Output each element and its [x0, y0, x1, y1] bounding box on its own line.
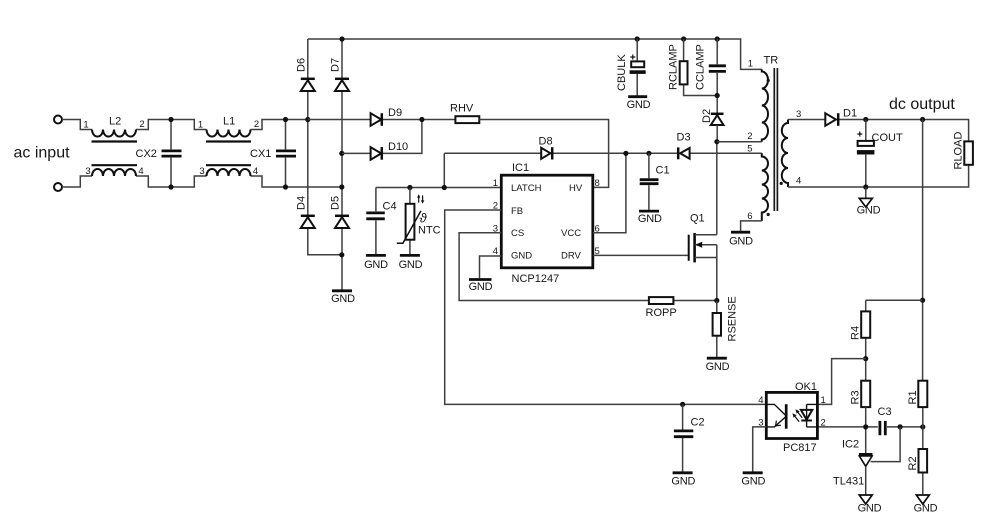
resistor RLOAD [964, 141, 973, 164]
phase dot aux [767, 213, 770, 216]
svg-text:1: 1 [198, 120, 203, 131]
capacitor COUT plus plate [858, 141, 874, 146]
svg-text:2: 2 [821, 417, 826, 428]
svg-text:D10: D10 [388, 141, 408, 153]
capacitor CX2 wires [170, 120, 172, 188]
resistor R4 [861, 300, 870, 381]
svg-text:GND: GND [858, 503, 882, 515]
diode D10 [371, 147, 382, 160]
svg-text:OK1: OK1 [795, 381, 817, 393]
svg-text:6: 6 [747, 211, 752, 222]
junction R4 tap [920, 298, 925, 303]
phase dot secondary [780, 182, 783, 185]
capacitor C1 wires [648, 153, 650, 210]
wire bridge leg D6/D4 [308, 39, 342, 255]
junction ac1-D6 [305, 117, 310, 122]
capacitor CX1 wires [285, 120, 287, 188]
capacitor C1 plates [640, 180, 659, 184]
svg-text:5: 5 [747, 143, 752, 154]
svg-text:RSENSE: RSENSE [726, 296, 738, 341]
svg-text:1: 1 [821, 395, 826, 406]
resistor RCLAMP [680, 39, 718, 96]
transformer TR primary winding [762, 69, 768, 141]
svg-text:8: 8 [595, 178, 600, 189]
svg-text:D5: D5 [330, 196, 342, 210]
svg-text:C4: C4 [383, 201, 397, 213]
svg-text:GND: GND [627, 99, 651, 111]
wire D8 branch vertical [443, 153, 445, 187]
capacitor CCLAMP wires [716, 39, 718, 114]
diode D8 [541, 147, 552, 159]
junction latch-D8 [442, 185, 447, 190]
svg-text:TL431: TL431 [833, 476, 864, 488]
svg-text:D8: D8 [539, 136, 553, 148]
resistor R3 [861, 381, 870, 407]
junction ac2-D5 [339, 184, 344, 189]
wire R4 tap horizontal [866, 299, 923, 301]
svg-text:PC817: PC817 [783, 442, 817, 454]
svg-text:CS: CS [511, 228, 524, 239]
inductor L1 winding 1 [207, 130, 251, 137]
ground bridge [332, 289, 352, 292]
junction C1 [646, 151, 651, 156]
thermistor NTC body [406, 204, 415, 240]
svg-text:ROPP: ROPP [646, 307, 677, 319]
optocoupler OK1 light arrows [792, 409, 802, 422]
svg-text:RHV: RHV [450, 102, 474, 114]
svg-text:GND: GND [729, 235, 753, 247]
svg-text:GND: GND [706, 361, 730, 373]
diode D6 [301, 79, 315, 91]
ground RSENSE [707, 357, 727, 360]
junction D6 top rail [339, 36, 344, 41]
terminal top [54, 116, 62, 124]
wire dc bottom rail [788, 165, 969, 187]
svg-text:GND: GND [469, 281, 493, 293]
junction CX2 top [168, 117, 173, 122]
shunt regulator IC2 TL431 [859, 454, 873, 466]
svg-text:D3: D3 [677, 131, 691, 143]
svg-text:IC1: IC1 [512, 162, 529, 174]
wire output sense vertical [922, 120, 924, 381]
transformer TR core [774, 68, 777, 211]
svg-text:R1: R1 [907, 390, 919, 404]
ground COUT arrow [859, 198, 872, 207]
svg-text:4: 4 [253, 166, 258, 177]
inductor L2 winding 2 [92, 169, 136, 176]
capacitor CBULK plus sign [630, 55, 635, 60]
junction R3 bottom [863, 424, 868, 429]
ground C2 [673, 471, 693, 474]
wire opto pin1 to divider [817, 359, 865, 405]
wire TR pin6 to gnd [741, 221, 762, 231]
ground CBULK [628, 95, 647, 98]
resistor RSENSE [713, 301, 721, 357]
wire RHV to HV pin 8 [479, 120, 608, 188]
svg-text:GND: GND [399, 259, 423, 271]
resistor R1 [918, 381, 927, 427]
capacitor CX1 plates [276, 151, 296, 156]
junction VCC [623, 151, 628, 156]
junction CX2 bottom [168, 184, 173, 189]
junction R4-R3 [863, 356, 868, 361]
svg-text:L2: L2 [109, 116, 121, 128]
inductor L2 winding 1 [92, 130, 136, 137]
thermistor NTC strike [397, 211, 421, 243]
junction latch-NTC [407, 185, 412, 190]
capacitor CBULK minus plate [630, 70, 646, 74]
svg-text:3: 3 [796, 109, 801, 120]
capacitor CX2 plates [162, 151, 182, 156]
svg-text:GND: GND [638, 213, 662, 225]
junction D9-D10 [419, 117, 424, 122]
wire GND pin4 [480, 256, 502, 278]
inductor L1 core [206, 142, 251, 166]
capacitor COUT plus sign [857, 132, 862, 137]
svg-text:DRV: DRV [561, 251, 582, 262]
wire DRV pin5 to Q1 gate [593, 254, 689, 256]
junction bridge bottom [339, 252, 344, 257]
resistor ROPP [649, 297, 674, 304]
svg-text:HV: HV [569, 183, 583, 194]
svg-text:4: 4 [796, 176, 801, 187]
wire D9 line [308, 119, 456, 121]
svg-text:NCP1247: NCP1247 [512, 273, 560, 285]
wire D8 line to aux winding [444, 152, 762, 154]
junction D10-D5 [339, 151, 344, 156]
svg-text:4: 4 [758, 395, 763, 406]
svg-text:LATCH: LATCH [511, 183, 542, 194]
svg-text:GND: GND [364, 259, 388, 271]
svg-text:IC2: IC2 [842, 439, 859, 451]
junction CBULK rail [635, 36, 640, 41]
ground IC1 pin4 [469, 278, 492, 281]
svg-text:FB: FB [511, 206, 523, 217]
svg-text:1: 1 [83, 120, 88, 131]
junction C2 [680, 402, 685, 407]
svg-text:GND: GND [914, 503, 938, 515]
svg-text:ϑ: ϑ [420, 211, 428, 226]
inductor L1 winding 2 [207, 169, 251, 176]
svg-text:R2: R2 [907, 456, 919, 470]
junction CS-RSENSE [714, 298, 719, 303]
resistor RHV [455, 116, 479, 123]
wire opto pin3 to gnd [753, 427, 767, 472]
junction COUT top [863, 117, 868, 122]
svg-text:GND: GND [511, 251, 532, 262]
ground C4 [366, 254, 386, 257]
transistor Q1 source wire [695, 245, 717, 301]
svg-text:RCLAMP: RCLAMP [667, 44, 679, 90]
capacitor CBULK wires [636, 39, 638, 96]
wire bridge leg D7/D5 [341, 39, 343, 290]
diode D1 [825, 113, 838, 126]
svg-text:C1: C1 [656, 165, 670, 177]
phase dot primary [767, 79, 770, 82]
svg-text:Q1: Q1 [690, 213, 705, 225]
junction CX1 top [283, 117, 288, 122]
svg-text:D2: D2 [701, 109, 713, 123]
junction RCLAMP rail [681, 36, 686, 41]
wire dc output line [788, 120, 969, 142]
thermistor NTC arrows [419, 195, 423, 202]
transistor Q1 drain wire [695, 234, 717, 236]
svg-text:CX1: CX1 [250, 148, 271, 160]
svg-text:D9: D9 [388, 107, 402, 119]
svg-text:C3: C3 [878, 406, 892, 418]
wire VCC pin6 [593, 153, 626, 233]
junction drain pin2 [714, 139, 719, 144]
wire opto pin2 line [817, 426, 922, 428]
capacitor C2 wires [682, 404, 684, 471]
svg-text:2: 2 [139, 119, 144, 130]
junction COUT bottom [863, 184, 868, 189]
wire top rail [308, 39, 762, 69]
diode D9 [371, 113, 382, 126]
svg-text:GND: GND [857, 204, 881, 216]
ground TL431 arrow [859, 495, 872, 504]
capacitor COUT wires [865, 120, 867, 188]
svg-text:CBULK: CBULK [616, 54, 628, 91]
svg-text:L1: L1 [223, 116, 235, 128]
svg-text:GND: GND [741, 476, 765, 488]
svg-text:ac input: ac input [14, 145, 71, 162]
capacitor CBULK plus plate [631, 61, 644, 67]
wire CS pin3 to ROPP [459, 233, 717, 301]
diode D7 [335, 79, 349, 91]
svg-text:CX2: CX2 [136, 148, 157, 160]
junction CCLAMP rail [715, 36, 720, 41]
wire ac line 2 left [62, 176, 342, 187]
ground TR pin6 [731, 231, 750, 234]
junction R1 bottom [920, 424, 925, 429]
svg-text:NTC: NTC [418, 224, 441, 236]
ground C1 [639, 210, 659, 213]
svg-text:GND: GND [671, 476, 695, 488]
wire COUT gnd stub [865, 187, 867, 198]
wire TR pin2 [717, 141, 762, 143]
ground R2 arrow [916, 495, 929, 504]
capacitor CCLAMP plates [709, 66, 726, 72]
ground NTC [400, 254, 420, 257]
svg-text:VCC: VCC [561, 228, 581, 239]
transistor Q1 body arrow [695, 242, 702, 248]
diode D2 [711, 114, 724, 125]
wire TL431 anode [865, 466, 867, 495]
thermistor NTC wires [409, 188, 411, 255]
svg-text:dc output: dc output [889, 96, 955, 113]
svg-text:1: 1 [493, 178, 498, 189]
svg-text:CCLAMP: CCLAMP [695, 44, 707, 90]
junction C3 right [898, 424, 903, 429]
diode D3 [678, 147, 689, 159]
diode D5 [335, 216, 349, 228]
svg-text:TR: TR [764, 55, 779, 67]
svg-text:2: 2 [254, 119, 259, 130]
transistor Q1 gate bar [688, 235, 690, 261]
optocoupler OK1 box [766, 392, 817, 438]
capacitor C4 plates [366, 213, 385, 219]
svg-text:GND: GND [331, 293, 355, 305]
svg-text:D6: D6 [296, 58, 308, 72]
svg-text:COUT: COUT [872, 132, 903, 144]
svg-text:D7: D7 [330, 58, 342, 72]
ground opto pin3 [743, 471, 763, 474]
junction clamp bottom [715, 93, 720, 98]
transistor Q1 channel [693, 233, 696, 262]
capacitor C3 [878, 418, 887, 435]
junction feedback tap [920, 117, 925, 122]
transformer TR aux winding [762, 153, 768, 221]
op-amp IC1 box NCP1247 [501, 175, 593, 268]
optocoupler OK1 led [766, 404, 786, 429]
capacitor C2 plates [674, 431, 693, 437]
svg-text:2: 2 [747, 131, 752, 142]
svg-text:RLOAD: RLOAD [952, 132, 964, 170]
svg-text:4: 4 [138, 166, 143, 177]
wire R3 to TL431 [865, 407, 867, 453]
svg-text:D1: D1 [843, 108, 857, 120]
optocoupler OK1 photodiode [801, 404, 818, 427]
svg-text:C2: C2 [691, 417, 705, 429]
diode D4 [301, 216, 315, 228]
svg-text:R4: R4 [850, 326, 862, 340]
resistor R2 [919, 427, 928, 495]
terminal bottom [54, 183, 62, 191]
wire D2 to Q1 drain [716, 125, 718, 235]
transformer TR secondary winding [782, 120, 788, 188]
junction CX1 bottom [283, 184, 288, 189]
wire FB pin2 to optocoupler [445, 210, 767, 404]
inductor L2 core [92, 142, 138, 166]
capacitor COUT minus plate [857, 150, 875, 154]
svg-text:3: 3 [199, 166, 204, 177]
wire latch line [376, 187, 501, 189]
svg-text:D4: D4 [296, 196, 308, 210]
wire D10 line [342, 120, 422, 154]
wire TL431 ref [871, 427, 901, 462]
wire ac line 1 left [62, 120, 308, 130]
svg-text:3: 3 [85, 166, 90, 177]
capacitor C4 wires [375, 188, 377, 255]
svg-text:R3: R3 [850, 390, 862, 404]
svg-text:1: 1 [748, 59, 753, 70]
